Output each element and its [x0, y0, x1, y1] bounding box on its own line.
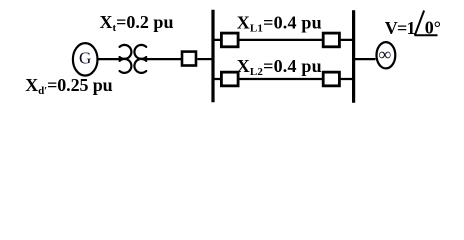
svg-text:XL2=0.4 pu: XL2=0.4 pu — [237, 56, 322, 78]
bus 1 — [211, 10, 214, 103]
svg-text:0°: 0° — [425, 18, 441, 38]
breaker CB3 (line L1 right) — [323, 33, 339, 47]
wire breaker CB1 to bus 1 — [197, 58, 213, 60]
svg-text:V=1: V=1 — [385, 18, 416, 38]
bus 2 — [352, 10, 355, 103]
breaker CB5 (line L2 right) — [323, 72, 339, 86]
breaker CB2 (line L1 left) — [221, 33, 238, 47]
infinite bus — [377, 42, 396, 68]
wire bus 2 to infinite bus — [354, 58, 376, 60]
svg-text:XL1=0.4 pu: XL1=0.4 pu — [237, 12, 322, 34]
svg-text:Xd′=0.25 pu: Xd′=0.25 pu — [25, 75, 112, 97]
wire generator to transformer — [98, 58, 122, 60]
svg-text:∞: ∞ — [379, 44, 391, 64]
breaker CB1 — [182, 52, 196, 66]
breaker CB4 (line L2 left) — [221, 72, 238, 86]
svg-text:G: G — [79, 48, 91, 67]
generator G — [73, 43, 98, 76]
svg-text:Xt=0.2 pu: Xt=0.2 pu — [100, 12, 174, 34]
wire line L2 — [213, 78, 354, 80]
transformer T1 — [120, 45, 147, 73]
wire transformer to breaker CB1 — [143, 58, 181, 60]
angle symbol — [414, 11, 437, 36]
wire line L1 — [213, 39, 354, 41]
